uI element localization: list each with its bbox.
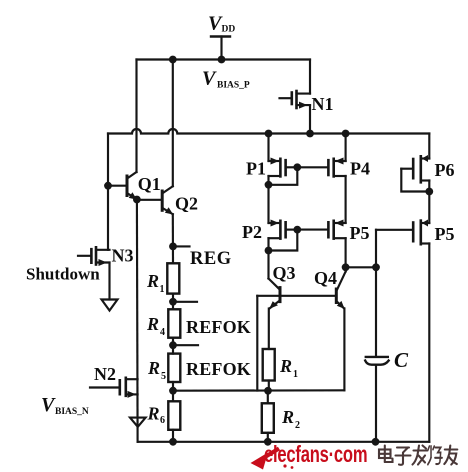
svg-text:P4: P4 xyxy=(350,159,370,179)
svg-text:REFOK: REFOK xyxy=(186,317,251,337)
wire Q2 collector column xyxy=(172,60,174,187)
svg-text:R: R xyxy=(147,358,160,378)
wire left VBIASP drop column xyxy=(107,134,109,250)
resistor R1 (left chain) xyxy=(167,263,179,293)
svg-text:P5: P5 xyxy=(350,223,370,243)
wire P2 gate-drain tie xyxy=(269,230,298,251)
node P2 drain / Q3 collector xyxy=(265,247,273,255)
svg-text:P5: P5 xyxy=(435,224,455,244)
transistor N3 xyxy=(78,247,110,266)
transistor Q4 xyxy=(336,267,345,309)
svg-text:Q3: Q3 xyxy=(273,263,296,283)
char fa xyxy=(414,449,428,451)
node rail R6 xyxy=(169,438,177,446)
wire Q3 emitter column xyxy=(268,309,270,350)
svg-text:R: R xyxy=(281,407,294,427)
wire P5 second gate drop xyxy=(375,230,377,267)
svg-text:2: 2 xyxy=(295,420,300,431)
svg-text:elecfans·com: elecfans·com xyxy=(264,442,367,467)
svg-text:R: R xyxy=(147,404,160,424)
watermark chinese characters xyxy=(379,446,457,465)
svg-text:P1: P1 xyxy=(246,159,266,179)
node rail R2 xyxy=(264,438,272,446)
char dian xyxy=(379,450,391,459)
wire R4 to R5 xyxy=(172,338,174,354)
svg-text:R: R xyxy=(279,356,292,376)
svg-text:BIAS_P: BIAS_P xyxy=(217,81,250,91)
wire P2-P5 gate link xyxy=(297,229,328,231)
transistor Q1 xyxy=(108,172,137,200)
wire P1 gate-drain tie xyxy=(269,167,298,185)
wire R6 to rail xyxy=(172,430,174,442)
resistor R1 middle xyxy=(263,349,275,381)
svg-text:Q1: Q1 xyxy=(138,174,161,194)
node Q2 collector on rail xyxy=(169,56,177,64)
transistor P5 second xyxy=(376,192,429,442)
transistor P5 first xyxy=(328,220,345,268)
watermark elecfans logo arrow xyxy=(251,449,294,470)
svg-text:N1: N1 xyxy=(312,94,334,114)
ground under N3 xyxy=(102,300,118,311)
ground under N2 xyxy=(130,418,146,427)
capacitor C xyxy=(365,267,388,442)
transistor N1 xyxy=(280,91,311,134)
wire R5 to R6 xyxy=(172,382,174,401)
node R1mid R2 junction xyxy=(264,387,272,395)
svg-text:4: 4 xyxy=(160,327,165,338)
svg-text:N3: N3 xyxy=(112,246,134,266)
wire P1-P4 gate link xyxy=(297,166,328,168)
svg-text:1: 1 xyxy=(293,369,298,380)
wire P6 gate-drain tie xyxy=(401,169,429,192)
wire Q3 Q4 base link xyxy=(257,295,335,297)
resistor R5 xyxy=(168,354,180,382)
transistor Q3 xyxy=(269,251,281,309)
svg-text:N2: N2 xyxy=(94,364,116,384)
wire output node xyxy=(346,266,376,268)
wire REG stub xyxy=(173,245,190,247)
svg-text:C: C xyxy=(394,348,409,372)
node P2 P5 gates xyxy=(293,226,301,234)
wire REFOK stub 2 xyxy=(173,344,198,346)
node cap top xyxy=(372,263,380,271)
node R5 R6 junction xyxy=(169,387,177,395)
resistor R4 xyxy=(168,309,180,337)
transistor P1 xyxy=(269,134,298,185)
node P6 drain xyxy=(425,188,433,196)
wire Q1 emitter / N2 drain long column xyxy=(136,200,139,442)
node Q4 collector xyxy=(342,263,350,271)
char zi xyxy=(397,446,409,448)
svg-text:R: R xyxy=(146,314,159,334)
node REFOK tap 2 xyxy=(169,341,177,349)
svg-text:Shutdown: Shutdown xyxy=(26,265,100,284)
wire N3 source to ground xyxy=(108,263,110,300)
svg-text:Q2: Q2 xyxy=(175,194,198,214)
svg-text:1: 1 xyxy=(160,284,165,295)
wire bases drop column xyxy=(256,296,258,391)
char you xyxy=(445,448,458,450)
VDD supply bar xyxy=(211,35,230,37)
wire Q1 collector column xyxy=(135,60,137,173)
svg-text:P6: P6 xyxy=(435,160,455,180)
wire Q2 emitter column to REG node xyxy=(172,214,174,263)
node REG tap xyxy=(169,243,177,251)
transistor P2 xyxy=(269,185,298,251)
node P1 P4 gates xyxy=(293,163,301,171)
bottom rail wire xyxy=(138,441,430,443)
node rail C xyxy=(372,438,380,446)
wire REFOK stub 1 xyxy=(173,301,197,303)
resistor R2 xyxy=(262,403,274,433)
wire R2 top xyxy=(267,391,269,404)
svg-text:P2: P2 xyxy=(242,222,262,242)
transistor Q2 xyxy=(137,186,174,214)
watermark elecfans.com text xyxy=(264,442,367,467)
wire R1mid to node xyxy=(268,381,270,391)
svg-text:R: R xyxy=(146,271,159,291)
wire VDD lead xyxy=(220,37,222,60)
wire REFOK row xyxy=(173,389,344,392)
node rail P1 xyxy=(265,130,273,138)
transistor N2 xyxy=(90,378,138,398)
svg-text:REFOK: REFOK xyxy=(186,359,251,379)
wire R2 bottom xyxy=(267,433,269,442)
top rail wire xyxy=(137,58,311,60)
svg-text:REG: REG xyxy=(190,249,232,269)
wire Q4 emitter column xyxy=(343,309,345,391)
svg-text:DD: DD xyxy=(222,25,236,35)
svg-text:5: 5 xyxy=(161,371,166,382)
transistor P6 xyxy=(401,134,429,192)
wire N1 drain column xyxy=(309,60,311,94)
wire R1 to R4 xyxy=(172,294,174,310)
svg-text:V: V xyxy=(41,394,56,416)
char shao xyxy=(430,446,432,458)
node rail N1 xyxy=(306,130,314,138)
resistor R6 xyxy=(168,401,180,430)
V_BIAS_P rail with crossover hops xyxy=(108,129,429,134)
svg-text:Q4: Q4 xyxy=(314,268,337,288)
svg-text:6: 6 xyxy=(160,415,165,426)
svg-text:BIAS_N: BIAS_N xyxy=(55,407,89,417)
node rail P4 xyxy=(342,130,350,138)
node P1 drain xyxy=(265,181,273,189)
svg-text:V: V xyxy=(202,68,217,90)
node Q1 base tap xyxy=(104,182,112,190)
node Q1 emitter / Q2 base xyxy=(133,196,141,204)
node VDD junction xyxy=(218,56,226,64)
node REFOK tap 1 xyxy=(169,298,177,306)
transistor P4 xyxy=(328,134,345,223)
